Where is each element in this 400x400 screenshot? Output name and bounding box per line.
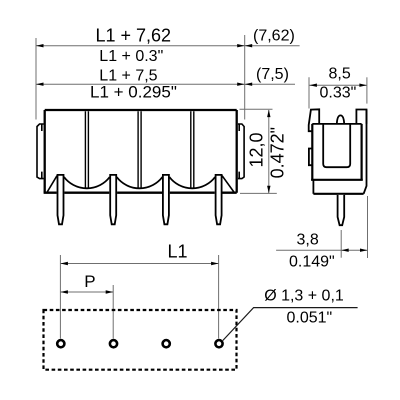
- side view right mounting tab: [356, 110, 366, 124]
- hole 1: [57, 340, 64, 347]
- extension line right (front view overall width): [244, 35, 246, 120]
- hole 3: [163, 340, 170, 347]
- pin 4 (front view): [216, 175, 222, 224]
- dimension line 8,5: [309, 84, 367, 86]
- extension line hole4 (L1 dim): [218, 255, 220, 339]
- svg-text:Ø 1,3 + 0,1: Ø 1,3 + 0,1: [264, 288, 344, 305]
- svg-text:(7,62): (7,62): [253, 28, 295, 45]
- extension line right of 8,5 dim: [366, 77, 368, 103]
- scallop arc between pin2 and pin3: [117, 177, 163, 188]
- hole 4: [215, 340, 222, 347]
- svg-text:0.33": 0.33": [320, 85, 357, 102]
- left flange: [37, 124, 44, 179]
- reference dimension (7,62) line: [245, 45, 300, 47]
- arrow bottom of 12,0: [267, 186, 270, 194]
- side view bottom band left edge: [312, 180, 314, 194]
- extension line pin center (3,8 dim): [340, 230, 342, 258]
- side view main body right edge: [361, 124, 363, 180]
- svg-text:L1 + 0.295": L1 + 0.295": [90, 82, 177, 101]
- pin 1 (front view): [58, 175, 64, 224]
- extension line bottom of 12,0 dim: [240, 192, 277, 194]
- arrow left of L1+7,5: [36, 83, 44, 86]
- arrow right of 3,8: [360, 249, 368, 252]
- pin 2 (front view): [110, 175, 116, 224]
- extension line right edge (3,8 dim): [367, 196, 369, 258]
- svg-text:L1 + 0.3": L1 + 0.3": [99, 48, 163, 65]
- bottom view dashed outline: [44, 310, 237, 370]
- scallop arc between pin1 and pin2: [64, 177, 110, 188]
- bottom-left chamfer diagonal: [47, 176, 57, 192]
- svg-text:0.472": 0.472": [268, 127, 288, 178]
- side view center dome: [337, 115, 344, 124]
- arrow right of L1: [211, 262, 219, 265]
- svg-text:L1 + 7,62: L1 + 7,62: [96, 26, 172, 46]
- side view left latch: [309, 149, 312, 166]
- front view body outline: [45, 110, 237, 193]
- svg-text:12,0: 12,0: [247, 132, 267, 167]
- dimension line L1+7,62: [36, 45, 245, 47]
- divider wall 3 (double line): [191, 111, 194, 188]
- arrow left of L1: [60, 262, 68, 265]
- arrow left of 8,5: [309, 84, 317, 87]
- side view left mounting tab: [309, 109, 320, 131]
- svg-text:0.051": 0.051": [287, 310, 333, 327]
- side view top surface: [312, 123, 361, 125]
- svg-text:0.149": 0.149": [289, 254, 335, 271]
- leader line to hole 4: [223, 308, 358, 341]
- svg-text:L1: L1: [168, 242, 188, 262]
- arrow left of 3,8: [341, 249, 349, 252]
- svg-text:(7,5): (7,5): [256, 66, 289, 83]
- arrow left of L1+7,62: [36, 44, 44, 47]
- extension line left of 8,5 dim: [308, 77, 310, 108]
- hole 2: [110, 340, 117, 347]
- extension line top of 12,0 dim: [240, 108, 273, 110]
- side view pin: [338, 195, 345, 225]
- front view bottom edge segments (interrupted by pins): [44, 192, 237, 194]
- svg-text:8,5: 8,5: [329, 66, 351, 83]
- arrow left of P: [60, 290, 68, 293]
- arrow of (7,5): [245, 83, 253, 86]
- arrow right of L1+7,62: [237, 44, 245, 47]
- arrow of (7,62): [245, 44, 253, 47]
- dimension line L1+7,5: [36, 83, 245, 85]
- side view bottom band top edge: [311, 179, 363, 181]
- divider wall 2 (double line): [138, 111, 141, 188]
- arrow top of 12,0: [267, 110, 270, 118]
- dimension line L1: [60, 263, 218, 265]
- side view bottom band bottom edge: [313, 193, 363, 195]
- pin 3 (front view): [163, 175, 169, 224]
- reference dimension (7,5) line: [245, 83, 295, 85]
- right flange: [238, 124, 244, 179]
- side view U pocket: [323, 124, 350, 167]
- svg-text:P: P: [84, 272, 95, 291]
- svg-text:3,8: 3,8: [297, 231, 319, 248]
- arrow right of P: [106, 290, 114, 293]
- bottom-right chamfer diagonal: [222, 176, 234, 192]
- dimension line 3,8: [276, 249, 367, 251]
- arrow right of L1+7,5: [237, 83, 245, 86]
- divider wall 1 (double line): [85, 111, 88, 188]
- dimension line P: [60, 291, 113, 293]
- side view main body left edge: [311, 124, 313, 180]
- arrow right of 8,5: [359, 84, 367, 87]
- dimension line 12,0 vertical: [268, 110, 270, 193]
- side view outer right skin: [364, 110, 367, 194]
- extension line hole2 (P dim): [112, 285, 114, 339]
- extension line hole1 (L1 dim): [59, 255, 61, 339]
- scallop arc between pin3 and pin4: [169, 177, 215, 188]
- extension line left (front view overall width): [35, 38, 37, 120]
